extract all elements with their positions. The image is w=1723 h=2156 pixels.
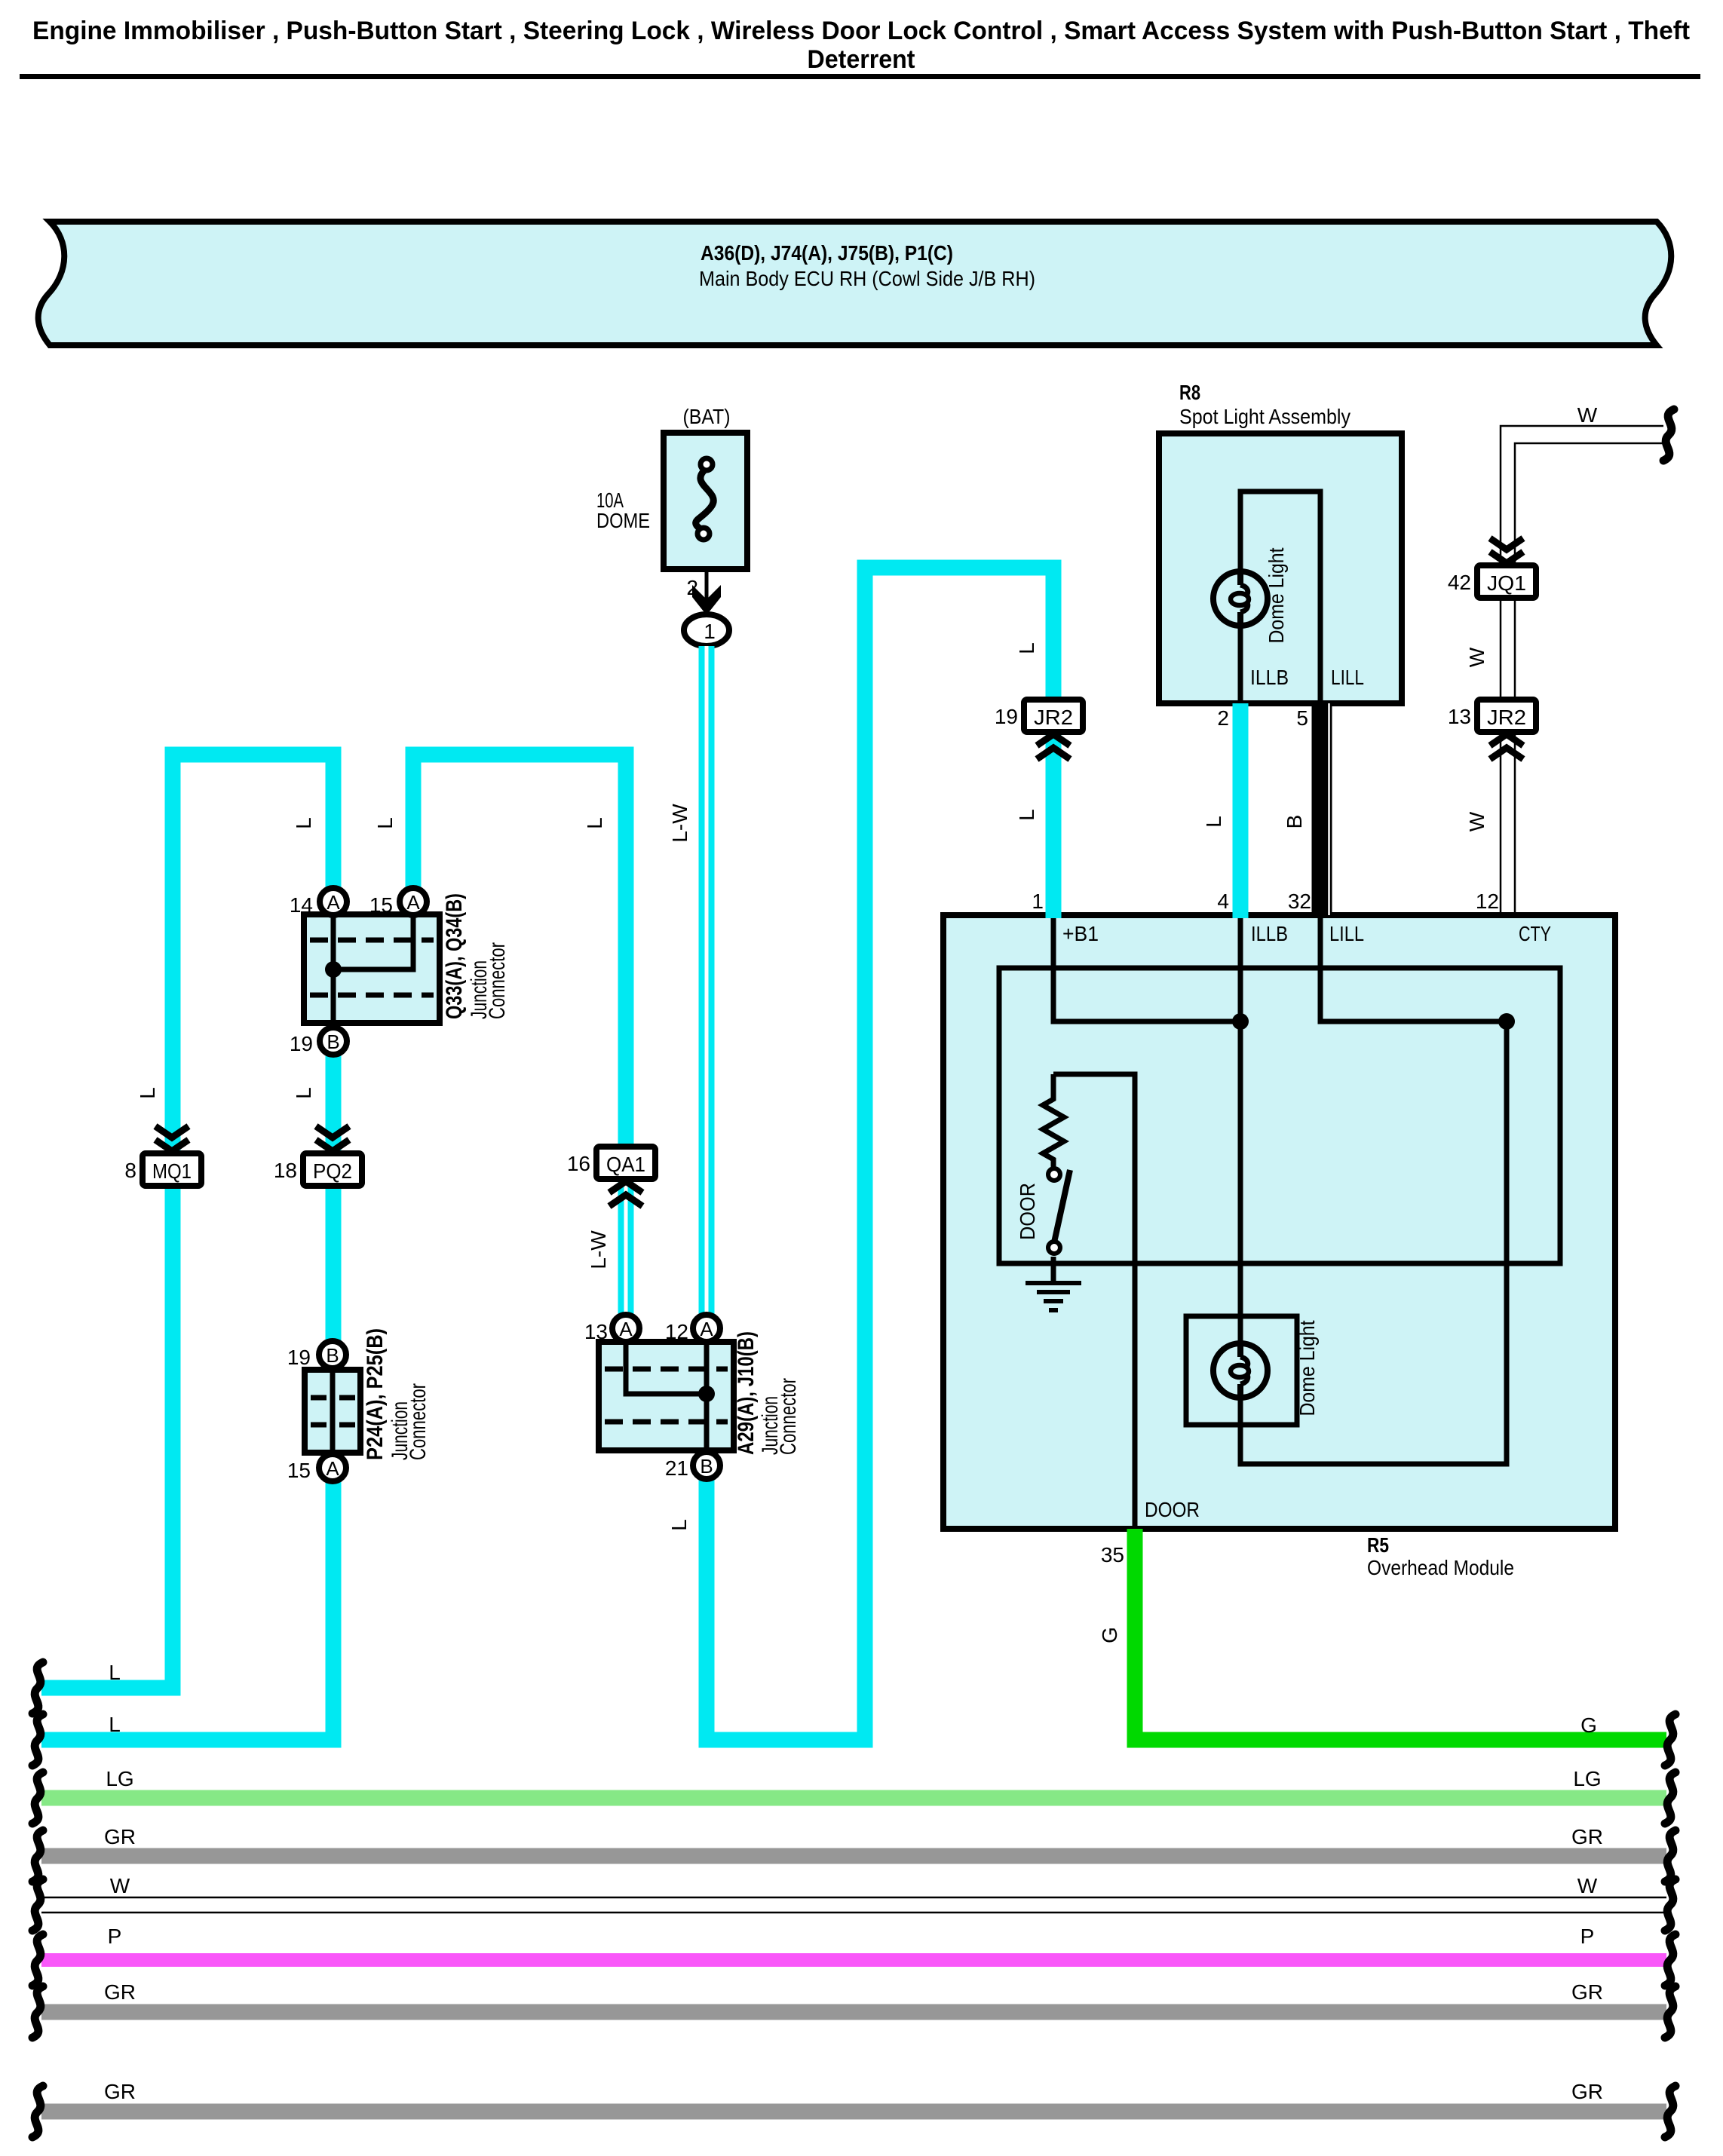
bus wire P — [41, 1953, 1666, 1967]
wire L-W: QA1 to A29 pin13 — [618, 1179, 634, 1314]
svg-text:12: 12 — [1476, 890, 1499, 913]
wire break squiggle at 2215,2527 — [1665, 1879, 1675, 1931]
bus wire GR row3 — [41, 2104, 1666, 2120]
svg-text:GR: GR — [104, 2080, 136, 2103]
svg-text:4: 4 — [1217, 890, 1229, 913]
svg-text:1: 1 — [704, 620, 716, 643]
wire W: top right double line — [1501, 426, 1663, 915]
svg-text:P: P — [1580, 1925, 1595, 1948]
svg-text:ILLB: ILLB — [1250, 666, 1289, 689]
svg-text:A36(D), J74(A), J75(B), P1(C): A36(D), J74(A), J75(B), P1(C) — [701, 241, 953, 265]
wire break squiggle at 50,2239 — [32, 1662, 43, 1713]
Q33 pin 19 B — [320, 1027, 347, 1055]
resistor — [1043, 1074, 1064, 1168]
svg-text:B: B — [327, 1031, 339, 1053]
svg-text:L: L — [667, 1519, 691, 1531]
svg-text:19: 19 — [290, 1032, 313, 1055]
svg-text:P24(A), P25(B): P24(A), P25(B) — [363, 1328, 388, 1460]
connector JQ1 — [1477, 565, 1536, 598]
svg-text:21: 21 — [665, 1456, 688, 1480]
svg-text:LG: LG — [106, 1767, 133, 1790]
svg-text:13: 13 — [584, 1320, 608, 1343]
svg-text:Spot Light Assembly: Spot Light Assembly — [1179, 405, 1351, 428]
svg-text:JQ1: JQ1 — [1487, 571, 1526, 595]
wire break squiggle at 2215,2385 — [1665, 1772, 1675, 1824]
svg-text:19: 19 — [287, 1346, 311, 1369]
A29 pin 21 B — [693, 1452, 720, 1479]
svg-text:LG: LG — [1573, 1767, 1601, 1790]
fuse symbol — [696, 470, 714, 528]
svg-text:P: P — [108, 1925, 122, 1948]
node 1 ellipse — [684, 614, 729, 646]
R5 internal ILLB wire down to bulb and CTY return — [1240, 915, 1507, 1464]
svg-text:G: G — [1098, 1627, 1121, 1643]
svg-text:8: 8 — [124, 1159, 136, 1182]
connector PQ2 — [303, 1153, 362, 1186]
svg-text:DOOR: DOOR — [1145, 1498, 1200, 1521]
wire break squiggle at 50,2669 — [32, 1986, 43, 2038]
wire fuse output with arrow — [705, 569, 709, 603]
connector QA1 — [596, 1147, 655, 1179]
svg-text:L-W: L-W — [668, 804, 691, 843]
R5 dome light bulb box — [1186, 1316, 1297, 1425]
svg-text:A: A — [700, 1318, 713, 1340]
svg-text:L: L — [136, 1087, 159, 1099]
svg-text:G: G — [1580, 1713, 1597, 1737]
A29 pin 12 A — [693, 1315, 720, 1342]
wire break squiggle at 2215,2600 — [1665, 1934, 1675, 1986]
svg-text:Deterrent: Deterrent — [808, 45, 915, 74]
R5 internal wire LILL to CTY node — [1320, 915, 1507, 1021]
R5 Overhead Module box — [943, 915, 1615, 1529]
svg-text:15: 15 — [287, 1459, 311, 1482]
wire break squiggle at 2215,2801 — [1665, 2086, 1675, 2137]
svg-text:L: L — [373, 817, 397, 829]
R8 internal wire ILLB-LILL loop — [1240, 492, 1320, 703]
svg-text:A: A — [327, 891, 340, 914]
ground — [1026, 1283, 1081, 1310]
svg-text:LILL: LILL — [1331, 666, 1364, 689]
svg-text:L: L — [292, 817, 315, 829]
svg-text:1: 1 — [1032, 890, 1044, 913]
svg-text:L: L — [1015, 642, 1038, 654]
bus wire LG — [41, 1790, 1666, 1806]
svg-text:+B1: +B1 — [1062, 922, 1099, 945]
wire break squiggle at 2215,2462 — [1665, 1830, 1675, 1882]
svg-text:B: B — [1283, 815, 1306, 829]
R5 inner rectangle — [999, 968, 1560, 1263]
bus wire GR row1 — [41, 1848, 1666, 1864]
svg-text:Connector: Connector — [406, 1383, 431, 1460]
svg-text:Main Body ECU RH (Cowl Side J/: Main Body ECU RH (Cowl Side J/B RH) — [699, 267, 1035, 290]
wire G: R5 pin35 DOOR to right bus — [1135, 1529, 1666, 1740]
svg-text:Connector: Connector — [776, 1378, 801, 1455]
svg-text:W: W — [1577, 403, 1598, 427]
svg-text:13: 13 — [1448, 705, 1471, 728]
svg-text:MQ1: MQ1 — [152, 1159, 192, 1183]
svg-text:35: 35 — [1101, 1543, 1124, 1566]
svg-text:Dome Light: Dome Light — [1265, 547, 1288, 643]
svg-text:Overhead Module: Overhead Module — [1367, 1556, 1514, 1579]
wire break squiggle at 50,2801 — [32, 2086, 43, 2137]
svg-text:L: L — [1015, 809, 1038, 821]
wire L: Q33 pin19 B down through PQ2, P24 to bus row2 — [41, 1055, 333, 1740]
connector JR2 — [1477, 700, 1536, 732]
P24 pin 15 A — [319, 1454, 346, 1481]
wire L-W: fuse node1 to A29 pin12 — [699, 646, 715, 1314]
connector JR2 — [1024, 700, 1083, 732]
svg-text:L-W: L-W — [587, 1230, 610, 1269]
svg-text:CTY: CTY — [1519, 922, 1551, 945]
svg-text:W: W — [1465, 647, 1488, 667]
svg-text:L: L — [292, 1087, 315, 1099]
connector MQ1 — [143, 1153, 201, 1186]
svg-text:A29(A), J10(B): A29(A), J10(B) — [734, 1331, 759, 1455]
svg-text:16: 16 — [567, 1152, 590, 1175]
svg-text:GR: GR — [1571, 1980, 1603, 2004]
R5 internal wire +B1 to ILLB node — [1053, 915, 1240, 1021]
svg-text:B: B — [700, 1455, 713, 1478]
wire L: left bus row1 up to Q33 pin 14 — [41, 755, 333, 1688]
svg-text:L: L — [1202, 816, 1225, 828]
wire break squiggle at 2215,2308 — [1665, 1714, 1675, 1766]
svg-text:18: 18 — [274, 1159, 297, 1182]
svg-text:2: 2 — [1217, 706, 1229, 730]
A29 pin 13 A — [612, 1315, 639, 1342]
svg-text:L: L — [109, 1713, 121, 1736]
svg-text:32: 32 — [1288, 890, 1311, 913]
wire break squiggle at 2213,577 — [1663, 409, 1674, 461]
svg-text:DOME: DOME — [596, 509, 650, 532]
svg-text:19: 19 — [995, 705, 1018, 728]
R8 Spot Light Assembly box — [1159, 433, 1402, 703]
wire L: Q33 pin15 up over to QA1 — [413, 755, 626, 1161]
switch DOOR — [1048, 1168, 1060, 1181]
svg-text:Engine Immobiliser , Push-Butt: Engine Immobiliser , Push-Button Start ,… — [32, 17, 1690, 45]
svg-text:W: W — [110, 1874, 130, 1897]
svg-text:GR: GR — [104, 1980, 136, 2004]
wire L: R8 ILLB pin2 to R5 pin4 — [1233, 703, 1249, 918]
svg-text:ILLB: ILLB — [1251, 922, 1288, 945]
wire break squiggle at 50,2385 — [32, 1772, 43, 1824]
svg-text:R5: R5 — [1367, 1533, 1389, 1557]
svg-text:W: W — [1577, 1874, 1598, 1897]
svg-text:A: A — [326, 1457, 339, 1480]
wire break squiggle at 50,2462 — [32, 1830, 43, 1882]
svg-text:12: 12 — [665, 1320, 688, 1343]
svg-text:(BAT): (BAT) — [683, 405, 731, 428]
R5 door switch branch — [1053, 1074, 1135, 1529]
Q33 pin 15 A — [400, 888, 427, 915]
svg-text:15: 15 — [369, 893, 393, 917]
svg-text:R8: R8 — [1179, 381, 1200, 404]
wire L: A29 pin21 B down, U across bottom, up and over to JR2 and R5 +B1 — [707, 568, 1053, 1740]
svg-text:A: A — [619, 1318, 633, 1340]
junction connector A29(A), J10(B) — [599, 1342, 734, 1450]
svg-text:GR: GR — [1571, 2080, 1603, 2103]
svg-text:DOOR: DOOR — [1016, 1183, 1039, 1240]
svg-text:Connector: Connector — [485, 942, 510, 1019]
svg-text:LILL: LILL — [1329, 922, 1364, 945]
svg-text:A: A — [406, 891, 420, 914]
junction dot at CTY — [1498, 1013, 1515, 1030]
svg-text:GR: GR — [104, 1825, 136, 1848]
fuse 10A DOME box — [664, 433, 747, 569]
bus wire GR row2 — [41, 2004, 1666, 2020]
svg-text:14: 14 — [290, 893, 313, 917]
bus wire W (double line) — [41, 1897, 1666, 1899]
svg-text:Q33(A), Q34(B): Q33(A), Q34(B) — [442, 893, 467, 1019]
junction connector Q33(A), Q34(B) — [304, 914, 440, 1023]
svg-text:B: B — [326, 1344, 339, 1367]
svg-text:W: W — [1465, 811, 1488, 831]
wire break squiggle at 50,2308 — [32, 1714, 43, 1766]
svg-text:5: 5 — [1296, 706, 1308, 730]
svg-text:Dome Light: Dome Light — [1295, 1320, 1319, 1416]
svg-text:2: 2 — [686, 576, 698, 599]
svg-text:GR: GR — [1571, 1825, 1603, 1848]
R8 dome light bulb — [1213, 571, 1268, 626]
svg-text:L: L — [109, 1661, 121, 1684]
Q33 pin 14 A — [320, 888, 347, 915]
svg-text:JR2: JR2 — [1487, 706, 1526, 729]
wire break squiggle at 50,2600 — [32, 1934, 43, 1986]
P24 pin 19 B — [319, 1341, 346, 1368]
title rule — [20, 74, 1700, 79]
svg-text:PQ2: PQ2 — [313, 1159, 352, 1183]
svg-text:L: L — [583, 817, 606, 829]
wire break squiggle at 50,2527 — [32, 1879, 43, 1931]
connector banner A36(D), J74(A), J75(B), P1(C) Main Body ECU RH — [38, 222, 1672, 345]
svg-text:JR2: JR2 — [1034, 706, 1073, 729]
junction connector P24(A), P25(B) — [305, 1370, 360, 1453]
junction dot at ILLB — [1232, 1013, 1249, 1030]
wire break squiggle at 2215,2669 — [1665, 1986, 1675, 2038]
wire B: R8 LILL pin5 to R5 pin32 — [1312, 703, 1332, 918]
svg-text:QA1: QA1 — [606, 1153, 645, 1176]
svg-text:42: 42 — [1448, 571, 1471, 594]
